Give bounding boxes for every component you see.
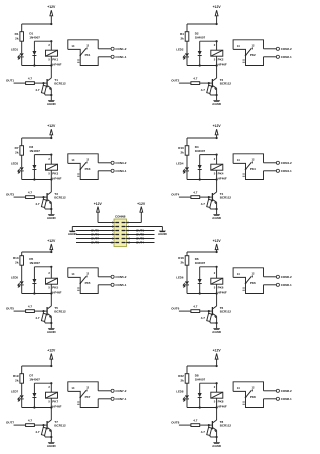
transistor T4 BCR112 bbox=[212, 192, 231, 214]
svg-text:OUT6: OUT6 bbox=[171, 307, 179, 311]
resistor 4.7 base pulldown block 6 bbox=[201, 311, 218, 324]
transistor T1 BCR112 bbox=[47, 78, 66, 100]
resistor R16 2k bbox=[178, 256, 189, 266]
svg-text:+12V: +12V bbox=[213, 124, 222, 128]
svg-text:CON1-2: CON1-2 bbox=[115, 47, 126, 51]
LED LED2 bbox=[176, 48, 189, 66]
LED LED3 bbox=[11, 162, 24, 180]
svg-text:4.7: 4.7 bbox=[35, 430, 40, 434]
power +12V block 8 bbox=[213, 348, 222, 366]
svg-text:PK4: PK4 bbox=[218, 172, 224, 176]
diode D5 1N4007 bbox=[29, 257, 52, 294]
relay contact PK3 bbox=[68, 154, 98, 180]
svg-text:PK6: PK6 bbox=[250, 281, 256, 285]
connector CONN8 bbox=[114, 215, 127, 247]
svg-text:R7: R7 bbox=[15, 146, 19, 150]
svg-text:14: 14 bbox=[71, 272, 74, 276]
ground AGND block 1 bbox=[47, 100, 57, 106]
svg-text:LED1: LED1 bbox=[11, 48, 19, 52]
svg-text:R13: R13 bbox=[13, 256, 19, 260]
connector pin pad row 2 bbox=[112, 226, 130, 229]
svg-text:CON2-1: CON2-1 bbox=[281, 55, 292, 59]
connector pin pad row 4 bbox=[112, 234, 130, 237]
ground AGND connector bbox=[127, 227, 168, 237]
svg-text:4.7: 4.7 bbox=[193, 419, 198, 423]
svg-text:R1: R1 bbox=[15, 32, 19, 36]
terminal CON6-1 bbox=[264, 283, 293, 287]
transistor T8 BCR112 bbox=[212, 420, 231, 442]
transistor T5 BCR112 bbox=[47, 306, 66, 328]
svg-text:2k: 2k bbox=[180, 260, 184, 264]
svg-text:+12V: +12V bbox=[213, 239, 222, 243]
svg-text:HF46F: HF46F bbox=[52, 176, 61, 180]
resistor R13 2k bbox=[13, 256, 24, 266]
LED LED8 bbox=[176, 390, 189, 408]
svg-text:AGND: AGND bbox=[47, 444, 57, 448]
svg-text:AGND: AGND bbox=[158, 232, 168, 236]
relay contact PK4 bbox=[233, 154, 263, 180]
wire cathode node to collector block 2 bbox=[187, 64, 218, 78]
diode D4 1N4007 bbox=[195, 145, 218, 181]
svg-text:CON8-2: CON8-2 bbox=[281, 389, 292, 393]
relay coil PK2 HF46F bbox=[211, 41, 227, 66]
svg-text:2k: 2k bbox=[15, 150, 19, 154]
svg-text:+12V: +12V bbox=[47, 239, 56, 243]
resistor 4.7 base pulldown block 8 bbox=[201, 425, 218, 438]
svg-text:PK8: PK8 bbox=[250, 395, 256, 399]
svg-text:AGND: AGND bbox=[212, 102, 222, 106]
terminal CON8-1 bbox=[264, 397, 293, 401]
svg-text:BCR112: BCR112 bbox=[220, 310, 232, 314]
wire R4 to LED2 bbox=[186, 41, 188, 53]
svg-text:PK1: PK1 bbox=[85, 53, 91, 57]
svg-text:+12V: +12V bbox=[47, 124, 56, 128]
wire cathode node to collector block 1 bbox=[22, 64, 53, 78]
svg-text:12: 12 bbox=[86, 386, 89, 390]
transistor T6 BCR112 bbox=[212, 306, 231, 328]
connector pin pad row 6 bbox=[111, 242, 131, 245]
svg-text:PK7: PK7 bbox=[85, 395, 91, 399]
wire +12V rail to R4 branch bbox=[187, 137, 218, 146]
wire +12V rail to R6 branch bbox=[187, 251, 218, 256]
svg-text:CONN8: CONN8 bbox=[115, 215, 126, 219]
relay contact PK7 bbox=[68, 382, 98, 408]
svg-text:LED7: LED7 bbox=[11, 390, 19, 394]
wire R13 to LED5 bbox=[21, 265, 23, 281]
svg-text:4.7: 4.7 bbox=[201, 316, 206, 320]
svg-text:CON5-2: CON5-2 bbox=[115, 275, 126, 279]
resistor R10 2k bbox=[178, 146, 189, 156]
terminal CON4-1 bbox=[264, 169, 293, 173]
svg-text:PK2: PK2 bbox=[218, 58, 224, 62]
relay coil PK5 HF46F bbox=[46, 267, 62, 295]
power +12V block 5 bbox=[47, 239, 56, 252]
svg-text:1N4007: 1N4007 bbox=[29, 378, 40, 382]
terminal CON1-2 bbox=[98, 47, 127, 51]
terminal CON8-2 bbox=[264, 389, 293, 393]
svg-text:LED6: LED6 bbox=[176, 276, 184, 280]
svg-text:4.7: 4.7 bbox=[35, 202, 40, 206]
input net OUT7 and series resistor 4.7 bbox=[6, 419, 47, 427]
net OUT7 wire left bbox=[76, 237, 114, 241]
relay coil PK7 HF46F bbox=[46, 383, 62, 408]
svg-text:+12V: +12V bbox=[94, 202, 103, 206]
terminal CON3-2 bbox=[98, 161, 127, 165]
svg-text:12: 12 bbox=[86, 158, 89, 162]
wire cathode node to collector block 6 bbox=[187, 292, 218, 306]
svg-text:OUT8: OUT8 bbox=[91, 241, 99, 245]
svg-text:CON6-2: CON6-2 bbox=[281, 275, 292, 279]
wire R22 to LED8 bbox=[186, 383, 188, 395]
svg-text:4.7: 4.7 bbox=[193, 77, 198, 81]
wire +12V rail to R2 branch bbox=[187, 23, 218, 32]
svg-text:4.7: 4.7 bbox=[201, 88, 206, 92]
wire +12V rail to R1 branch bbox=[22, 23, 53, 32]
svg-text:4.7: 4.7 bbox=[28, 191, 33, 195]
resistor R7 2k bbox=[15, 146, 24, 156]
svg-text:2k: 2k bbox=[180, 36, 184, 40]
input net OUT6 and series resistor 4.7 bbox=[171, 305, 212, 313]
svg-text:CON7-1: CON7-1 bbox=[115, 397, 126, 401]
svg-text:14: 14 bbox=[237, 158, 240, 162]
terminal CON2-1 bbox=[264, 55, 293, 59]
svg-text:LED4: LED4 bbox=[176, 162, 184, 166]
terminal CON3-1 bbox=[98, 169, 127, 173]
wire cathode node to collector block 8 bbox=[187, 406, 218, 420]
svg-text:BCR112: BCR112 bbox=[220, 196, 232, 200]
svg-text:4.7: 4.7 bbox=[28, 305, 33, 309]
svg-text:BCR112: BCR112 bbox=[54, 424, 66, 428]
svg-text:HF46F: HF46F bbox=[52, 62, 61, 66]
LED LED1 bbox=[11, 48, 24, 66]
wire R10 to LED4 bbox=[186, 155, 188, 167]
svg-text:4.7: 4.7 bbox=[201, 202, 206, 206]
svg-text:4.7: 4.7 bbox=[35, 316, 40, 320]
power +12V block 3 bbox=[47, 124, 56, 138]
connector pin pad row 1 bbox=[112, 222, 130, 225]
connector pin pad row 5 bbox=[112, 238, 131, 241]
svg-text:R19: R19 bbox=[13, 374, 19, 378]
svg-text:PK6: PK6 bbox=[218, 286, 224, 290]
diode D3 1N4007 bbox=[29, 145, 52, 181]
terminal CON7-2 bbox=[98, 389, 127, 393]
svg-text:LED5: LED5 bbox=[11, 276, 19, 280]
resistor R19 2k bbox=[13, 374, 24, 384]
svg-text:12: 12 bbox=[252, 386, 255, 390]
resistor 4.7 base pulldown block 1 bbox=[35, 83, 52, 96]
svg-text:R4: R4 bbox=[180, 32, 184, 36]
svg-text:14: 14 bbox=[237, 272, 240, 276]
power +12V block 1 bbox=[47, 5, 56, 24]
svg-text:1N4007: 1N4007 bbox=[29, 261, 40, 265]
ground AGND block 8 bbox=[212, 442, 222, 448]
ground AGND block 2 bbox=[212, 100, 222, 106]
input net OUT5 and series resistor 4.7 bbox=[6, 305, 47, 313]
ground AGND block 7 bbox=[47, 442, 57, 448]
input net OUT2 and series resistor 4.7 bbox=[171, 77, 212, 85]
svg-text:BCR112: BCR112 bbox=[220, 82, 232, 86]
net OUT8 wire left bbox=[76, 241, 114, 245]
svg-text:12: 12 bbox=[252, 158, 255, 162]
svg-text:CON4-2: CON4-2 bbox=[281, 161, 292, 165]
svg-text:HF46F: HF46F bbox=[218, 62, 227, 66]
terminal CON5-1 bbox=[98, 283, 127, 287]
net OUT4 wire right bbox=[127, 241, 155, 245]
svg-text:1N4007: 1N4007 bbox=[195, 378, 206, 382]
svg-text:R22: R22 bbox=[178, 374, 184, 378]
svg-text:LED8: LED8 bbox=[176, 390, 184, 394]
svg-text:BCR112: BCR112 bbox=[54, 196, 66, 200]
svg-text:HF46F: HF46F bbox=[52, 404, 61, 408]
net OUT6 wire left bbox=[76, 233, 114, 237]
resistor R22 2k bbox=[178, 374, 189, 384]
wire cathode node to collector block 5 bbox=[22, 292, 53, 306]
svg-text:2k: 2k bbox=[15, 36, 19, 40]
transistor T2 BCR112 bbox=[212, 78, 231, 100]
power +12V connector right bbox=[127, 202, 146, 223]
ground AGND block 6 bbox=[212, 328, 222, 334]
net OUT2 wire right bbox=[127, 233, 155, 237]
svg-text:PK8: PK8 bbox=[218, 400, 224, 404]
svg-text:+12V: +12V bbox=[47, 5, 56, 9]
svg-text:AGND: AGND bbox=[212, 444, 222, 448]
svg-text:12: 12 bbox=[86, 44, 89, 48]
wire R1 to LED1 bbox=[21, 41, 23, 53]
resistor R1 2k bbox=[15, 32, 24, 42]
input net OUT4 and series resistor 4.7 bbox=[171, 191, 212, 199]
svg-text:14: 14 bbox=[71, 386, 74, 390]
svg-text:OUT2: OUT2 bbox=[171, 79, 179, 83]
svg-text:OUT7: OUT7 bbox=[6, 421, 14, 425]
LED LED6 bbox=[176, 276, 189, 294]
power +12V connector left bbox=[94, 202, 114, 223]
svg-text:CON6-1: CON6-1 bbox=[281, 283, 292, 287]
svg-text:+12V: +12V bbox=[213, 5, 222, 9]
svg-text:OUT8: OUT8 bbox=[171, 421, 179, 425]
svg-text:14: 14 bbox=[237, 386, 240, 390]
connector pin pad row 3 bbox=[112, 230, 130, 233]
terminal CON4-2 bbox=[264, 161, 293, 165]
relay coil PK8 HF46F bbox=[211, 383, 227, 408]
svg-text:HF46F: HF46F bbox=[218, 404, 227, 408]
net OUT5 wire left bbox=[76, 229, 114, 233]
relay contact PK2 bbox=[233, 40, 263, 66]
svg-text:CON1-1: CON1-1 bbox=[115, 55, 126, 59]
svg-text:2k: 2k bbox=[15, 260, 19, 264]
svg-text:PK3: PK3 bbox=[52, 172, 58, 176]
svg-text:CON8-1: CON8-1 bbox=[281, 397, 292, 401]
svg-text:2k: 2k bbox=[180, 150, 184, 154]
resistor 4.7 base pulldown block 5 bbox=[35, 311, 52, 324]
svg-text:HF46F: HF46F bbox=[218, 176, 227, 180]
svg-text:PK5: PK5 bbox=[85, 281, 91, 285]
relay coil PK4 HF46F bbox=[211, 155, 227, 181]
svg-text:R10: R10 bbox=[178, 146, 184, 150]
resistor 4.7 base pulldown block 4 bbox=[201, 197, 218, 210]
LED LED7 bbox=[11, 390, 24, 408]
diode D2 1N4007 bbox=[195, 32, 218, 67]
svg-text:14: 14 bbox=[71, 158, 74, 162]
wire +12V rail to R7 branch bbox=[22, 365, 53, 374]
power +12V block 7 bbox=[47, 348, 56, 366]
svg-text:CON5-1: CON5-1 bbox=[115, 283, 126, 287]
svg-text:CON7-2: CON7-2 bbox=[115, 389, 126, 393]
svg-text:AGND: AGND bbox=[47, 330, 57, 334]
svg-text:CON3-2: CON3-2 bbox=[115, 161, 126, 165]
ground AGND connector left bbox=[68, 227, 114, 237]
svg-text:LED3: LED3 bbox=[11, 162, 19, 166]
svg-text:CON3-1: CON3-1 bbox=[115, 169, 126, 173]
ground AGND block 4 bbox=[212, 214, 222, 220]
input net OUT1 and series resistor 4.7 bbox=[6, 77, 47, 85]
svg-text:4.7: 4.7 bbox=[28, 77, 33, 81]
wire cathode node to collector block 3 bbox=[22, 178, 53, 192]
svg-text:PK7: PK7 bbox=[52, 400, 58, 404]
svg-text:PK5: PK5 bbox=[52, 286, 58, 290]
relay coil PK3 HF46F bbox=[46, 155, 62, 181]
wire R16 to LED6 bbox=[186, 265, 188, 281]
resistor 4.7 base pulldown block 3 bbox=[35, 197, 52, 210]
wire R19 to LED7 bbox=[21, 383, 23, 395]
svg-text:4.7: 4.7 bbox=[193, 305, 198, 309]
wire +12V rail to R5 branch bbox=[22, 251, 53, 256]
svg-text:AGND: AGND bbox=[212, 216, 222, 220]
resistor 4.7 base pulldown block 2 bbox=[201, 83, 218, 96]
LED LED5 bbox=[11, 276, 24, 294]
svg-text:1N4007: 1N4007 bbox=[29, 36, 40, 40]
svg-text:+12V: +12V bbox=[137, 202, 146, 206]
wire cathode node to collector block 4 bbox=[187, 178, 218, 192]
svg-text:PK4: PK4 bbox=[250, 167, 256, 171]
svg-text:CON4-1: CON4-1 bbox=[281, 169, 292, 173]
wire R7 to LED3 bbox=[21, 155, 23, 167]
svg-text:OUT4: OUT4 bbox=[136, 241, 144, 245]
terminal CON2-2 bbox=[264, 47, 293, 51]
power +12V block 2 bbox=[213, 5, 222, 24]
LED LED4 bbox=[176, 162, 189, 180]
svg-text:CON2-2: CON2-2 bbox=[281, 47, 292, 51]
ground AGND block 3 bbox=[47, 214, 57, 220]
diode D8 1N4007 bbox=[195, 374, 218, 409]
input net OUT3 and series resistor 4.7 bbox=[6, 191, 47, 199]
relay contact PK8 bbox=[233, 382, 263, 408]
terminal CON5-2 bbox=[98, 275, 127, 279]
svg-text:4.7: 4.7 bbox=[193, 191, 198, 195]
svg-text:PK1: PK1 bbox=[52, 58, 58, 62]
net OUT1 wire right bbox=[127, 229, 155, 233]
power +12V block 6 bbox=[213, 239, 222, 252]
svg-text:AGND: AGND bbox=[47, 216, 57, 220]
svg-text:OUT4: OUT4 bbox=[171, 193, 179, 197]
svg-text:1N4007: 1N4007 bbox=[195, 36, 206, 40]
svg-text:12: 12 bbox=[252, 44, 255, 48]
diode D7 1N4007 bbox=[29, 374, 52, 409]
relay coil PK1 HF46F bbox=[46, 41, 62, 66]
svg-text:OUT1: OUT1 bbox=[6, 79, 14, 83]
svg-text:PK2: PK2 bbox=[250, 53, 256, 57]
svg-text:1N4007: 1N4007 bbox=[195, 261, 206, 265]
wire +12V rail to R8 branch bbox=[187, 365, 218, 374]
svg-text:PK3: PK3 bbox=[85, 167, 91, 171]
svg-text:AGND: AGND bbox=[212, 330, 222, 334]
relay contact PK1 bbox=[68, 40, 98, 66]
svg-text:2k: 2k bbox=[180, 378, 184, 382]
transistor T3 BCR112 bbox=[47, 192, 66, 214]
wire cathode node to collector block 7 bbox=[22, 406, 53, 420]
svg-text:R16: R16 bbox=[178, 256, 184, 260]
svg-text:12: 12 bbox=[86, 272, 89, 276]
svg-text:LED2: LED2 bbox=[176, 48, 184, 52]
svg-text:BCR112: BCR112 bbox=[220, 424, 232, 428]
svg-text:HF46F: HF46F bbox=[218, 290, 227, 294]
svg-text:AGND: AGND bbox=[47, 102, 57, 106]
ground AGND block 5 bbox=[47, 328, 57, 334]
svg-text:4.7: 4.7 bbox=[28, 419, 33, 423]
input net OUT8 and series resistor 4.7 bbox=[171, 419, 212, 427]
terminal CON6-2 bbox=[264, 275, 293, 279]
svg-text:BCR112: BCR112 bbox=[54, 310, 66, 314]
svg-text:14: 14 bbox=[237, 44, 240, 48]
svg-text:4.7: 4.7 bbox=[35, 88, 40, 92]
svg-text:OUT3: OUT3 bbox=[6, 193, 14, 197]
resistor R4 2k bbox=[180, 32, 189, 42]
svg-text:1N4007: 1N4007 bbox=[195, 149, 206, 153]
svg-text:+12V: +12V bbox=[213, 348, 222, 352]
relay contact PK5 bbox=[68, 268, 98, 294]
terminal CON1-1 bbox=[98, 55, 127, 59]
diode D6 1N4007 bbox=[195, 257, 218, 294]
svg-text:+12V: +12V bbox=[47, 348, 56, 352]
resistor 4.7 base pulldown block 7 bbox=[35, 425, 52, 438]
svg-text:HF46F: HF46F bbox=[52, 290, 61, 294]
svg-text:14: 14 bbox=[71, 44, 74, 48]
terminal CON7-1 bbox=[98, 397, 127, 401]
svg-text:12: 12 bbox=[252, 272, 255, 276]
diode D1 1N4007 bbox=[29, 32, 52, 67]
svg-text:1N4007: 1N4007 bbox=[29, 149, 40, 153]
power +12V block 4 bbox=[213, 124, 222, 138]
relay contact PK6 bbox=[233, 268, 263, 294]
net OUT3 wire right bbox=[127, 237, 155, 241]
svg-text:BCR112: BCR112 bbox=[54, 82, 66, 86]
wire +12V rail to R3 branch bbox=[22, 137, 53, 146]
transistor T7 BCR112 bbox=[47, 420, 66, 442]
svg-text:OUT5: OUT5 bbox=[6, 307, 14, 311]
svg-text:4.7: 4.7 bbox=[201, 430, 206, 434]
svg-text:2k: 2k bbox=[15, 378, 19, 382]
relay coil PK6 HF46F bbox=[211, 267, 227, 295]
